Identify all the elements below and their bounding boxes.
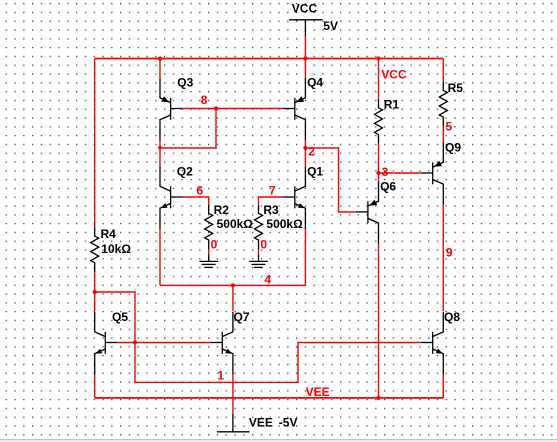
wire Q8 emitter to VEE rail — [442, 375, 444, 398]
wire node 6 Q2 base to R2 — [183, 197, 209, 205]
junction node 8 at Q3 collector — [158, 146, 162, 150]
svg-text:500kΩ: 500kΩ — [266, 217, 303, 231]
svg-text:5: 5 — [446, 120, 453, 134]
svg-text:Q4: Q4 — [307, 76, 323, 90]
transistor Q5 — [95, 312, 118, 375]
transistor Q6 — [356, 181, 379, 244]
svg-text:R5: R5 — [448, 81, 464, 95]
svg-text:VCC: VCC — [381, 67, 407, 81]
svg-text:10kΩ: 10kΩ — [101, 242, 131, 256]
wire node 2 branch to Q6 base — [305, 148, 356, 212]
wire Q4 emitter drop — [304, 59, 306, 78]
resistor R3 — [255, 205, 263, 250]
transistor Q8 — [421, 312, 444, 375]
wire Q6 collector to VEE rail — [378, 244, 380, 398]
wire R5 bottom to Q9 emitter node 5 — [442, 126, 444, 142]
transistor Q9 — [421, 142, 444, 205]
svg-text:6: 6 — [196, 184, 203, 198]
wire Q1 emitter to node 4 — [304, 229, 306, 285]
wire VEE rail — [95, 397, 444, 399]
transistor Q7 — [210, 312, 233, 375]
resistor R5 — [439, 82, 447, 127]
wire Q3 collector to Q2 collector — [159, 141, 161, 167]
junction node 8 — [214, 106, 218, 110]
resistor R2 — [205, 205, 213, 250]
junction Q6 collector VEE rail — [376, 396, 380, 400]
wire node 4 horizontal — [160, 284, 305, 286]
wire R1 top drop — [378, 59, 380, 100]
VEE power symbol — [217, 414, 250, 432]
wire Q3 emitter drop — [159, 59, 161, 78]
svg-text:2: 2 — [308, 145, 315, 159]
wire node 7 Q1 base to R3 — [259, 197, 283, 205]
svg-text:Q3: Q3 — [177, 76, 193, 90]
bottom window border — [0, 439, 557, 440]
svg-text:R4: R4 — [101, 227, 117, 241]
svg-text:7: 7 — [269, 184, 276, 198]
wire node 1 path R4 to Q8 base — [95, 292, 421, 382]
svg-text:Q2: Q2 — [177, 164, 193, 178]
junction rail-Q3 — [158, 56, 162, 60]
svg-text:3: 3 — [382, 165, 389, 179]
transistor Q1 — [283, 166, 306, 229]
svg-text:Q1: Q1 — [307, 164, 323, 178]
transistor Q2 — [160, 166, 183, 229]
svg-text:Q7: Q7 — [234, 310, 250, 324]
junction node 1 base row — [133, 340, 137, 344]
transistor Q3 — [160, 78, 183, 141]
wire left drop rail to R4 — [94, 59, 96, 228]
svg-text:0: 0 — [260, 237, 267, 251]
svg-text:Q6: Q6 — [380, 179, 396, 193]
wire VCC top rail — [95, 58, 444, 60]
svg-text:Q8: Q8 — [444, 310, 460, 324]
wire Q2 emitter to node 4 — [159, 229, 161, 285]
wire node 3 to Q9 base — [379, 172, 421, 174]
transistor Q4 — [283, 78, 306, 141]
wire Q7 emitter to VEE symbol — [232, 375, 234, 414]
wire VCC symbol pin to rail — [304, 36, 306, 58]
svg-text:8: 8 — [201, 93, 208, 107]
junction node 4 — [231, 283, 235, 287]
wire Q5 emitter to VEE rail — [94, 375, 96, 398]
VCC power symbol — [289, 20, 323, 37]
wire node 8 base link Q3-Q4 — [183, 108, 283, 110]
svg-text:1: 1 — [217, 368, 224, 382]
junction R4 bottom — [93, 290, 97, 294]
junction node 3 — [376, 171, 380, 175]
ground 0 under R3 — [249, 255, 268, 268]
svg-text:-5V: -5V — [279, 416, 298, 430]
svg-text:5V: 5V — [323, 19, 338, 33]
resistor R1 — [375, 99, 383, 144]
svg-text:500kΩ: 500kΩ — [217, 217, 254, 231]
svg-text:4: 4 — [264, 273, 271, 287]
wire R4 bottom to node1 junction to Q5 collector — [94, 272, 96, 311]
junction rail-R1 — [376, 56, 380, 60]
resistor R4 — [91, 228, 99, 273]
svg-text:VEE: VEE — [249, 416, 273, 430]
wire node 4 drop to Q7 collector — [232, 285, 234, 311]
wire R1 bottom to node 3 to Q6 emitter — [378, 144, 380, 181]
svg-text:R2: R2 — [214, 203, 230, 217]
svg-text:Q5: Q5 — [112, 310, 128, 324]
svg-text:Q9: Q9 — [445, 140, 461, 154]
wire node 9 Q9 collector to Q8 collector — [442, 205, 444, 311]
svg-text:VEE: VEE — [306, 385, 330, 399]
junction rail-VCC-Q4 — [303, 56, 307, 60]
wire R5 top drop — [442, 59, 444, 82]
svg-text:0: 0 — [211, 237, 218, 251]
wire Q4 collector to Q1 collector node 2 — [304, 141, 306, 167]
wire node 1 Q5 base to Q7 base — [117, 342, 210, 344]
svg-text:VCC: VCC — [292, 2, 318, 16]
wire node 8 branch to Q3 collector — [160, 109, 216, 149]
wire R3 bottom to ground — [258, 249, 260, 254]
svg-text:9: 9 — [446, 246, 453, 260]
svg-text:R3: R3 — [263, 203, 279, 217]
junction node 2 — [303, 146, 307, 150]
ground 0 under R2 — [199, 255, 218, 268]
wire R2 bottom to ground — [208, 249, 210, 254]
svg-text:R1: R1 — [384, 98, 400, 112]
